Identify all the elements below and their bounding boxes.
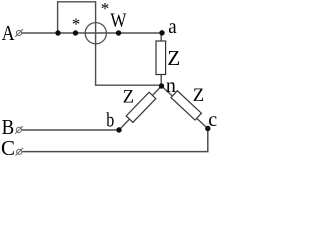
svg-text:a: a	[168, 16, 177, 38]
svg-text:b: b	[106, 110, 114, 132]
wire: phase C line from terminal C up to node c	[22, 129, 208, 152]
wire: phase A line from terminal A to node a	[22, 32, 162, 34]
wire: stub from node a down through Z to node n	[160, 33, 162, 86]
svg-text:n: n	[166, 75, 176, 97]
wattmeter W (measuring instrument circle)	[85, 23, 106, 44]
wire: diagonal from node n to node b	[119, 86, 162, 130]
junction dot 1 (loop tap on line A)	[55, 30, 60, 35]
impedance Z phase a (vertical rectangle)	[156, 41, 166, 75]
wire: wattmeter voltage-coil loop (dot on line A up, across, down through W to y=85, right to node n)	[58, 2, 162, 85]
svg-text:Z: Z	[193, 86, 204, 106]
svg-text:B: B	[2, 115, 15, 139]
junction dot 2 (current coil left terminal)	[73, 30, 78, 35]
svg-text:c: c	[208, 109, 217, 131]
node c	[205, 126, 210, 131]
terminal B (circle with slash)	[15, 126, 23, 134]
impedance Z phase b (tilted rectangle)	[126, 92, 156, 122]
svg-text:A: A	[2, 21, 15, 45]
junction dot 3 (current coil right terminal)	[116, 30, 121, 35]
wire: diagonal from node n to node c	[162, 86, 208, 129]
node b	[116, 127, 121, 132]
terminal C (circle with slash)	[15, 148, 23, 156]
terminal A (circle with slash)	[15, 29, 23, 37]
svg-text:Z: Z	[167, 46, 180, 70]
node a	[159, 30, 164, 35]
impedance Z phase c (tilted rectangle)	[171, 91, 201, 120]
svg-text:Z: Z	[123, 87, 134, 107]
svg-text:W: W	[110, 10, 126, 32]
svg-text:*: *	[101, 0, 110, 18]
node n	[159, 83, 164, 88]
svg-text:C: C	[1, 136, 15, 160]
wire: phase B line from terminal B to node b	[22, 129, 119, 131]
